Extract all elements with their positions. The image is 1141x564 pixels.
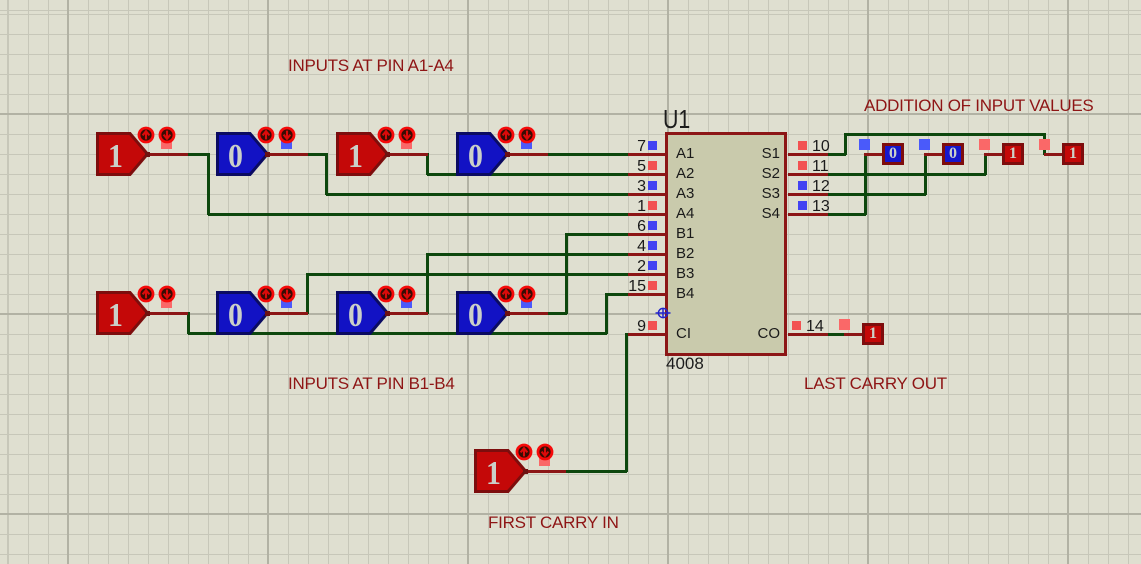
U1 pin stub CO	[788, 333, 828, 336]
U1 pin name B4	[676, 286, 694, 302]
U1 pin name A4	[676, 206, 694, 222]
U1 pin stub CI	[628, 333, 668, 336]
U1 pin number 2	[637, 259, 646, 276]
wire net S3 (pin 12 to probe 2)	[828, 193, 926, 196]
U1 pin stub A4	[628, 213, 668, 216]
svg-text:0: 0	[468, 136, 483, 174]
pin 1 logic level indicator	[648, 201, 657, 210]
svg-text:0: 0	[228, 136, 243, 174]
pin 13 logic level indicator	[798, 201, 807, 210]
U1 pin name A2	[676, 166, 694, 182]
logic probe S4 = 0	[864, 153, 882, 156]
U1 value label 4008	[666, 355, 704, 373]
U1 pin number 10	[812, 139, 830, 156]
wire net S4 (pin 13 to probe 1)	[828, 213, 866, 216]
wire net CO (pin 14 to probe 5)	[828, 333, 847, 336]
U1 pin name A1	[676, 146, 694, 162]
U1 pin name A3	[676, 186, 694, 202]
U1 pin number 13	[812, 199, 830, 216]
U1 pin stub S1	[788, 153, 828, 156]
U1 pin stub B4	[628, 293, 668, 296]
U1 pin stub B2	[628, 253, 668, 256]
logic state input A3 = 0	[216, 132, 269, 176]
pin 10 logic level indicator	[798, 141, 807, 150]
label ADDITION OF INPUT VALUES	[864, 97, 1094, 115]
label INPUTS AT PIN A1-A4	[288, 57, 454, 75]
logic probe S2 = 1	[984, 153, 1002, 156]
label INPUTS AT PIN B1-B4	[288, 375, 455, 393]
U1 pin number 5	[637, 159, 646, 176]
U1 pin number 12	[812, 179, 830, 196]
wire net S2 (pin 11 to probe 3)	[828, 173, 986, 176]
U1 pin stub A2	[628, 173, 668, 176]
svg-text:0: 0	[348, 295, 363, 333]
wire net B2 (state 0 to pin 4)	[426, 253, 429, 314]
U1 pin stub S2	[788, 173, 828, 176]
U1 pin name B3	[676, 266, 694, 282]
U1 pin number 4	[637, 239, 646, 256]
svg-text:0: 0	[228, 295, 243, 333]
U1 pin number 11	[812, 159, 829, 176]
U1 pin number 6	[637, 219, 646, 236]
U1 pin number 15	[628, 279, 646, 296]
wire net S1 (pin 10 to probe 4)	[828, 153, 846, 156]
pin 6 logic level indicator	[648, 221, 657, 230]
U1 reference designator	[663, 106, 690, 133]
U1 pin name S4	[762, 206, 780, 222]
wire net A4 (state 1 to pin 1)	[188, 153, 209, 156]
U1 pin stub A1	[628, 153, 668, 156]
probe S2 logic level indicator	[979, 139, 990, 150]
logic state input B3 = 0	[216, 291, 269, 335]
wire net B4 (state 1 to pin 15)	[187, 312, 190, 334]
U1 pin number 3	[637, 179, 646, 196]
part origin marker	[655, 305, 671, 321]
pin 11 logic level indicator	[798, 161, 807, 170]
label LAST CARRY OUT	[804, 375, 947, 393]
U1 pin number 1	[637, 199, 646, 216]
U1 pin stub A3	[628, 193, 668, 196]
logic probe CO = 1	[844, 333, 862, 336]
wire net CI (first carry in to pin 9)	[566, 470, 627, 473]
U1 pin stub S3	[788, 193, 828, 196]
U1 pin name S1	[762, 146, 780, 162]
U1 pin name CO	[758, 326, 781, 342]
pin 14 logic level indicator	[792, 321, 801, 330]
wire net A2 (state 1 to pin 5)	[426, 153, 429, 175]
U1 pin stub S4	[788, 213, 828, 216]
logic probe S1 = 1	[1044, 153, 1062, 156]
logic state input B2 = 0	[336, 291, 389, 335]
pin 3 logic level indicator	[648, 181, 657, 190]
logic state input A4 = 1	[96, 132, 149, 176]
IC U1 4008 4-bit full adder body	[665, 132, 787, 356]
U1 pin name CI	[676, 326, 691, 342]
wire net A1 (state 0 to pin 7)	[548, 153, 628, 156]
U1 pin number 9	[637, 319, 646, 336]
U1 pin number 14	[806, 319, 824, 336]
logic probe S3 = 0	[924, 153, 942, 156]
label FIRST CARRY IN	[488, 514, 619, 532]
U1 pin number 7	[637, 139, 646, 156]
pin 9 logic level indicator	[648, 321, 657, 330]
svg-text:1: 1	[108, 136, 123, 174]
probe S4 logic level indicator	[859, 139, 870, 150]
logic state input A1 = 0	[456, 132, 509, 176]
logic state input B4 = 1	[96, 291, 149, 335]
pin 12 logic level indicator	[798, 181, 807, 190]
svg-text:1: 1	[348, 136, 363, 174]
pin 7 logic level indicator	[648, 141, 657, 150]
U1 pin name S3	[762, 186, 780, 202]
U1 pin stub B1	[628, 233, 668, 236]
wire net B1 (state 0 to pin 6)	[548, 312, 567, 315]
pin 2 logic level indicator	[648, 261, 657, 270]
probe CO logic level indicator	[839, 319, 850, 330]
U1 pin stub B3	[628, 273, 668, 276]
wire net A3 (state 0 to pin 3)	[308, 153, 328, 156]
U1 pin name S2	[762, 166, 780, 182]
logic state input A2 = 1	[336, 132, 389, 176]
svg-text:1: 1	[108, 295, 123, 333]
pin 4 logic level indicator	[648, 241, 657, 250]
logic state input CI (first carry in) = 1	[474, 449, 527, 493]
U1 pin name B2	[676, 246, 694, 262]
U1 pin name B1	[676, 226, 694, 242]
svg-text:0: 0	[468, 295, 483, 333]
probe S1 logic level indicator	[1039, 139, 1050, 150]
pin 5 logic level indicator	[648, 161, 657, 170]
pin 15 logic level indicator	[648, 281, 657, 290]
probe S3 logic level indicator	[919, 139, 930, 150]
svg-text:1: 1	[486, 453, 501, 491]
wire net B3 (state 0 to pin 2)	[306, 273, 309, 314]
logic state input B1 = 0	[456, 291, 509, 335]
